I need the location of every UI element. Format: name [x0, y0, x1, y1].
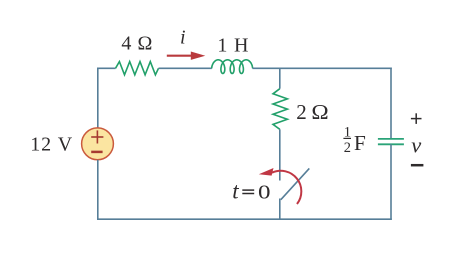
label v (capacitor voltage) — [411, 133, 421, 158]
wire: right rail top (corner to capacitor) — [390, 68, 392, 139]
label t = 0 — [232, 178, 270, 203]
svg-text:1 H: 1 H — [217, 35, 248, 57]
capacitor C1 plates — [378, 139, 404, 144]
wire: L1 to top-right corner — [253, 67, 392, 69]
svg-text:Ω: Ω — [311, 100, 328, 124]
svg-text:i: i — [180, 26, 186, 48]
resistor R2 2Ω — [273, 89, 287, 130]
switch action arrow (red arc, opens at t=0) — [259, 168, 302, 204]
label 12 V — [30, 134, 73, 156]
label 1 H — [217, 35, 248, 57]
svg-text:t: t — [232, 178, 239, 203]
svg-text:12 V: 12 V — [30, 134, 73, 156]
svg-text:0: 0 — [258, 182, 271, 204]
wire: bottom rail — [97, 218, 392, 220]
wire: source bottom to bottom-left corner — [97, 160, 99, 219]
inductor L1 1H — [212, 60, 253, 74]
svg-text:F: F — [354, 131, 366, 155]
label 1/2 F — [343, 124, 366, 156]
svg-text:4 Ω: 4 Ω — [121, 33, 152, 55]
switch S1 blade — [281, 168, 310, 199]
voltage source V1 12V — [82, 128, 114, 160]
wire: top-left segment (left rail top + lead to R1) — [98, 68, 116, 128]
label 4 Ω — [121, 33, 152, 55]
current arrow i (red) — [167, 52, 206, 60]
label − (capacitor polarity) — [411, 164, 424, 167]
resistor R1 4Ω — [116, 62, 159, 75]
wire: R2 down to switch top contact — [279, 129, 281, 180]
wire: capacitor to bottom-right corner — [390, 144, 392, 220]
svg-text:v: v — [411, 133, 421, 158]
label i — [180, 26, 186, 48]
wire: switch pivot down to bottom rail — [279, 199, 281, 220]
svg-text:2: 2 — [344, 140, 351, 156]
label + (capacitor polarity) — [411, 113, 422, 124]
wire: node B down to R2 — [279, 68, 281, 88]
label 2 Ω — [296, 100, 328, 124]
wire: between R1 and L1 — [159, 67, 212, 69]
svg-text:2: 2 — [296, 100, 307, 124]
